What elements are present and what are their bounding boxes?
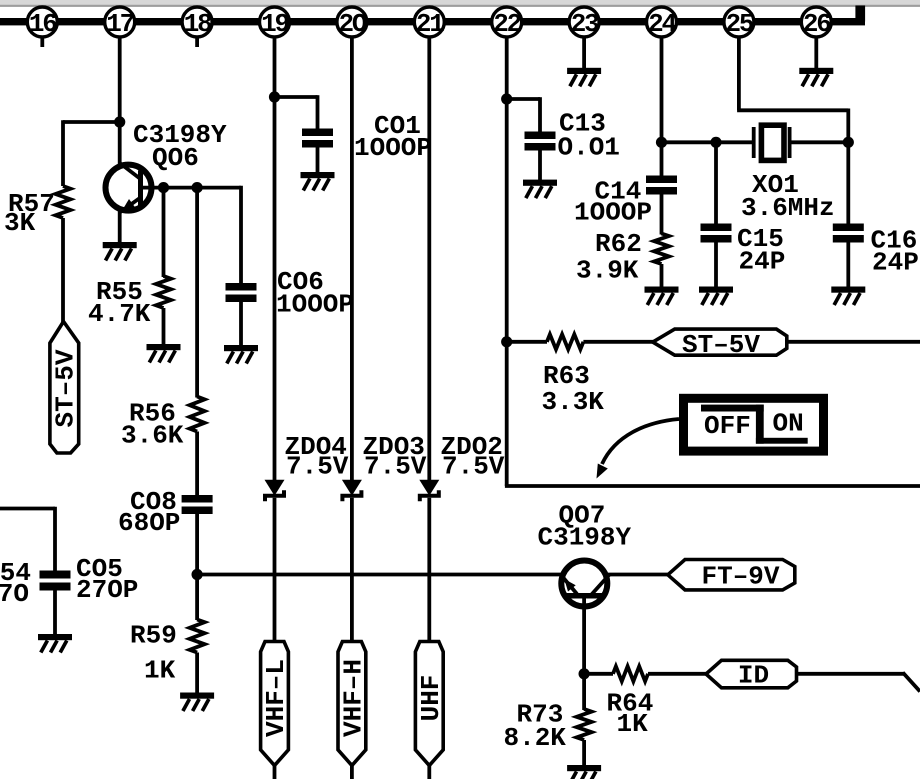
svg-text:19: 19 <box>261 9 289 39</box>
wire R55 to ground <box>162 308 166 345</box>
node pin22 / R63 branch <box>501 336 512 347</box>
svg-text:UHF: UHF <box>416 675 446 722</box>
wire pin17 to Q06 collector <box>118 36 122 164</box>
IC bus top rail <box>0 18 865 25</box>
wire VHF-L stub <box>273 764 277 779</box>
svg-text:4.7K: 4.7K <box>88 299 151 329</box>
wire crystal rail left <box>662 140 754 144</box>
pin 24 <box>647 7 677 37</box>
svg-text:R62: R62 <box>595 229 642 259</box>
wire UHF stub <box>427 764 431 779</box>
wire bias rail to Q07 emitter <box>197 573 565 577</box>
svg-text:24: 24 <box>648 9 676 39</box>
zener ZD03 <box>342 480 362 496</box>
wire R73 to ground <box>582 740 586 766</box>
pin 20 <box>337 7 367 37</box>
wire base to C06 <box>239 186 243 284</box>
wire pin24 down <box>660 36 664 177</box>
node pin17/R57 junction <box>114 116 125 127</box>
zener ZD04 <box>265 480 285 496</box>
node Q06 base / R56 <box>192 182 203 193</box>
ground under C01 <box>301 172 335 178</box>
flag VHF-H <box>338 642 366 766</box>
svg-text:3K: 3K <box>4 208 36 238</box>
svg-text:3.3K: 3.3K <box>542 387 605 417</box>
transistor Q07 <box>561 561 607 607</box>
resistor R64 <box>613 666 648 681</box>
svg-text:3.6K: 3.6K <box>121 421 184 451</box>
svg-text:1OOOP: 1OOOP <box>354 133 432 163</box>
pin 16 <box>27 7 57 37</box>
wire junction to R57 <box>63 120 120 124</box>
svg-text:18: 18 <box>184 9 212 39</box>
wire R59 to ground <box>195 653 199 694</box>
svg-text:68OP: 68OP <box>118 508 180 538</box>
resistor R59 <box>190 620 205 653</box>
resistor R57 <box>56 186 71 218</box>
flag UHF <box>415 642 443 766</box>
node Q06 base / R55 <box>158 182 169 193</box>
capacitor C05 <box>40 571 71 579</box>
svg-text:22: 22 <box>493 9 521 39</box>
pin 19 <box>260 7 290 37</box>
zener ZD02 <box>419 480 439 496</box>
ground under C05 <box>38 634 72 640</box>
ground under Q06 <box>103 242 137 248</box>
pin 18 <box>182 7 212 37</box>
svg-text:C3198Y: C3198Y <box>538 523 632 553</box>
wire Q06 base rail <box>141 186 242 190</box>
wire R64 to ID flag <box>648 672 707 676</box>
svg-text:1OOOP: 1OOOP <box>276 290 354 320</box>
wire node to R73 <box>582 674 586 710</box>
node crystal rail / C15 <box>710 137 721 148</box>
flag FT-9V <box>668 560 795 590</box>
wire R57 to ST-5V flag <box>61 218 65 323</box>
resistor R55 <box>156 276 171 308</box>
ground under C06 <box>224 345 258 351</box>
ground under C16 <box>831 287 865 293</box>
capacitor C13 <box>525 132 556 140</box>
arrow to power rail <box>602 419 679 464</box>
flag ST-5V (left) <box>653 329 787 355</box>
switch legend OFF/ON box <box>684 398 824 451</box>
wire R63 to ST-5V flag <box>583 340 653 344</box>
flag ST-5V (down) <box>50 322 79 454</box>
wire C16 stub <box>846 142 850 224</box>
node pin24 / crystal rail <box>656 137 667 148</box>
flag ID <box>706 660 797 688</box>
capacitor C08 <box>182 495 213 503</box>
transistor Q06 <box>106 165 152 211</box>
flag VHF-L <box>261 642 289 766</box>
wire VHF-H stub <box>350 764 354 779</box>
wire C01 to ground <box>316 147 320 173</box>
wire C13 to ground <box>538 150 542 181</box>
svg-text:O.O1: O.O1 <box>558 133 620 163</box>
wire branch to C01 <box>275 95 318 99</box>
pin 22 <box>492 7 522 37</box>
ground under R73 <box>567 765 601 771</box>
resistor R62 <box>654 234 669 265</box>
capacitor C14 <box>646 176 677 184</box>
svg-text:QO6: QO6 <box>152 143 199 173</box>
svg-text:VHF–L: VHF–L <box>261 659 291 737</box>
ground under pin 23 <box>567 68 601 74</box>
wire C14 to R62 <box>660 194 664 235</box>
wire ST-5V flag to edge <box>787 340 920 344</box>
svg-text:21: 21 <box>416 9 444 39</box>
wire ID flag to edge <box>797 672 905 676</box>
ground under R62 <box>645 287 679 293</box>
pin 18 stub <box>195 36 199 47</box>
wire branch to C13 <box>507 97 540 101</box>
wire ZD04 to VHF-L flag <box>273 498 277 642</box>
wire pin20 down <box>350 36 354 481</box>
svg-text:24P: 24P <box>739 247 786 277</box>
ground under C15 <box>699 287 733 293</box>
wire ZD02 to UHF flag <box>427 498 431 642</box>
pin 26 <box>801 7 831 37</box>
resistor R73 <box>577 709 592 740</box>
capacitor C15 <box>701 224 732 232</box>
svg-text:OFF: OFF <box>704 411 751 441</box>
node C08/R59/bias rail <box>192 569 203 580</box>
wire Q07 base down <box>582 597 586 674</box>
wire node to R64 <box>584 672 613 676</box>
svg-text:24P: 24P <box>872 248 919 278</box>
svg-text:27OP: 27OP <box>76 575 138 605</box>
svg-text:16: 16 <box>29 9 57 39</box>
wire pin21 down <box>427 36 431 481</box>
svg-text:ST–5V: ST–5V <box>682 330 760 360</box>
pin 16 stub <box>40 36 44 47</box>
wire C15 to ground <box>714 242 718 289</box>
svg-text:VHF–H: VHF–H <box>339 659 369 737</box>
top border strip <box>0 0 920 5</box>
pin 17 <box>105 7 135 37</box>
wire C08 to node <box>195 513 199 620</box>
wire edge to C05 <box>0 507 55 511</box>
svg-text:FT–9V: FT–9V <box>701 562 779 592</box>
wire ZD03 to VHF-H flag <box>350 498 354 642</box>
wire pin25 to C16 node <box>737 36 741 110</box>
crystal X01 <box>752 127 756 158</box>
svg-text:8.2K: 8.2K <box>504 723 567 753</box>
svg-text:17: 17 <box>106 9 133 39</box>
ground under C13 <box>523 180 557 186</box>
ground under R55 <box>147 344 181 350</box>
pin 23 <box>569 7 599 37</box>
resistor R63 <box>547 334 584 349</box>
svg-text:2O: 2O <box>338 9 366 39</box>
svg-text:1OOOP: 1OOOP <box>574 198 652 228</box>
ground under R59 <box>180 693 214 699</box>
node pin19 / C01 branch <box>269 91 280 102</box>
svg-text:3.6MHz: 3.6MHz <box>741 193 835 223</box>
wire Q06 emitter to ground <box>118 211 122 243</box>
capacitor C01 <box>302 129 333 137</box>
svg-text:7O: 7O <box>0 579 29 609</box>
pin 21 <box>414 7 444 37</box>
wire C06 to ground <box>239 301 243 346</box>
node crystal rail / C16 <box>843 137 854 148</box>
svg-text:23: 23 <box>571 9 599 39</box>
wire to R63 <box>507 340 547 344</box>
capacitor C16 <box>833 224 864 232</box>
ground under pin 26 <box>799 68 833 74</box>
svg-text:R59: R59 <box>130 621 177 651</box>
wire C05 to ground <box>53 590 57 636</box>
wire C16 to ground <box>846 242 850 289</box>
wire Q07 collector to FT-9V flag <box>608 573 669 577</box>
node Q07 base / R64 / R73 <box>579 668 590 679</box>
svg-text:7.5V: 7.5V <box>286 452 349 482</box>
svg-text:1K: 1K <box>617 709 649 739</box>
wire to R55 <box>162 188 166 277</box>
wire pin19 down <box>273 36 277 481</box>
wire C15 stub <box>714 142 718 224</box>
svg-text:ST–5V: ST–5V <box>51 349 81 427</box>
svg-text:7.5V: 7.5V <box>364 452 427 482</box>
svg-text:1K: 1K <box>144 656 176 686</box>
svg-text:25: 25 <box>725 9 753 39</box>
resistor R56 <box>190 397 205 432</box>
wire base junction to R56 <box>195 188 199 398</box>
node pin22 / C13 branch <box>501 93 512 104</box>
wire R62 to ground <box>660 264 664 288</box>
capacitor C06 <box>226 283 257 291</box>
svg-text:ON: ON <box>773 409 804 439</box>
svg-text:7.5V: 7.5V <box>442 452 505 482</box>
svg-text:ID: ID <box>738 661 769 691</box>
wire crystal to C16 node <box>790 140 849 144</box>
wire pin26 to ground <box>814 36 818 69</box>
wire R56 to C08 <box>195 432 199 497</box>
svg-text:3.9K: 3.9K <box>576 256 639 286</box>
svg-text:26: 26 <box>803 9 831 39</box>
pin 25 <box>724 7 754 37</box>
wire pin22 down <box>505 36 509 486</box>
wire pin23 to ground <box>582 36 586 69</box>
